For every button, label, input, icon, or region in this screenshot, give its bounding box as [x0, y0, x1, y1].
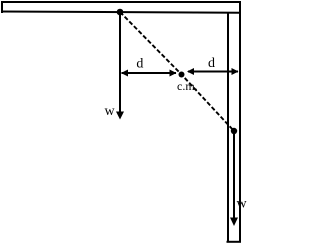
right d arrowhead right — [232, 68, 239, 75]
svg-text:d: d — [208, 56, 215, 71]
svg-text:c.m.: c.m. — [177, 79, 198, 93]
shared right edge — [239, 1, 241, 243]
horizontal beam — [1, 1, 241, 13]
svg-text:w: w — [237, 197, 248, 212]
left w arrowhead — [116, 112, 124, 120]
svg-text:w: w — [105, 104, 116, 119]
vertical beam left edge — [227, 12, 229, 243]
node dot on vertical beam — [231, 128, 237, 134]
wire left w arrow shaft — [119, 14, 121, 113]
horizontal beam bottom edge — [1, 12, 241, 13]
left d arrowhead left — [121, 70, 128, 77]
horizontal beam top edge — [1, 1, 241, 3]
right w arrowhead — [230, 218, 238, 227]
dashed line pivot to c.m. — [120, 12, 234, 131]
vertical beam bottom edge — [227, 241, 242, 243]
wire right w arrow shaft — [233, 133, 235, 219]
horizontal beam left edge — [1, 1, 3, 13]
pivot dot — [117, 9, 124, 16]
left d arrow shaft — [122, 72, 177, 74]
left d arrowhead right — [170, 70, 177, 77]
right d arrow shaft — [188, 71, 238, 73]
right d arrowhead left — [187, 68, 194, 75]
vertical beam — [227, 13, 242, 243]
svg-text:d: d — [136, 57, 143, 72]
c.m. dot — [179, 72, 185, 78]
